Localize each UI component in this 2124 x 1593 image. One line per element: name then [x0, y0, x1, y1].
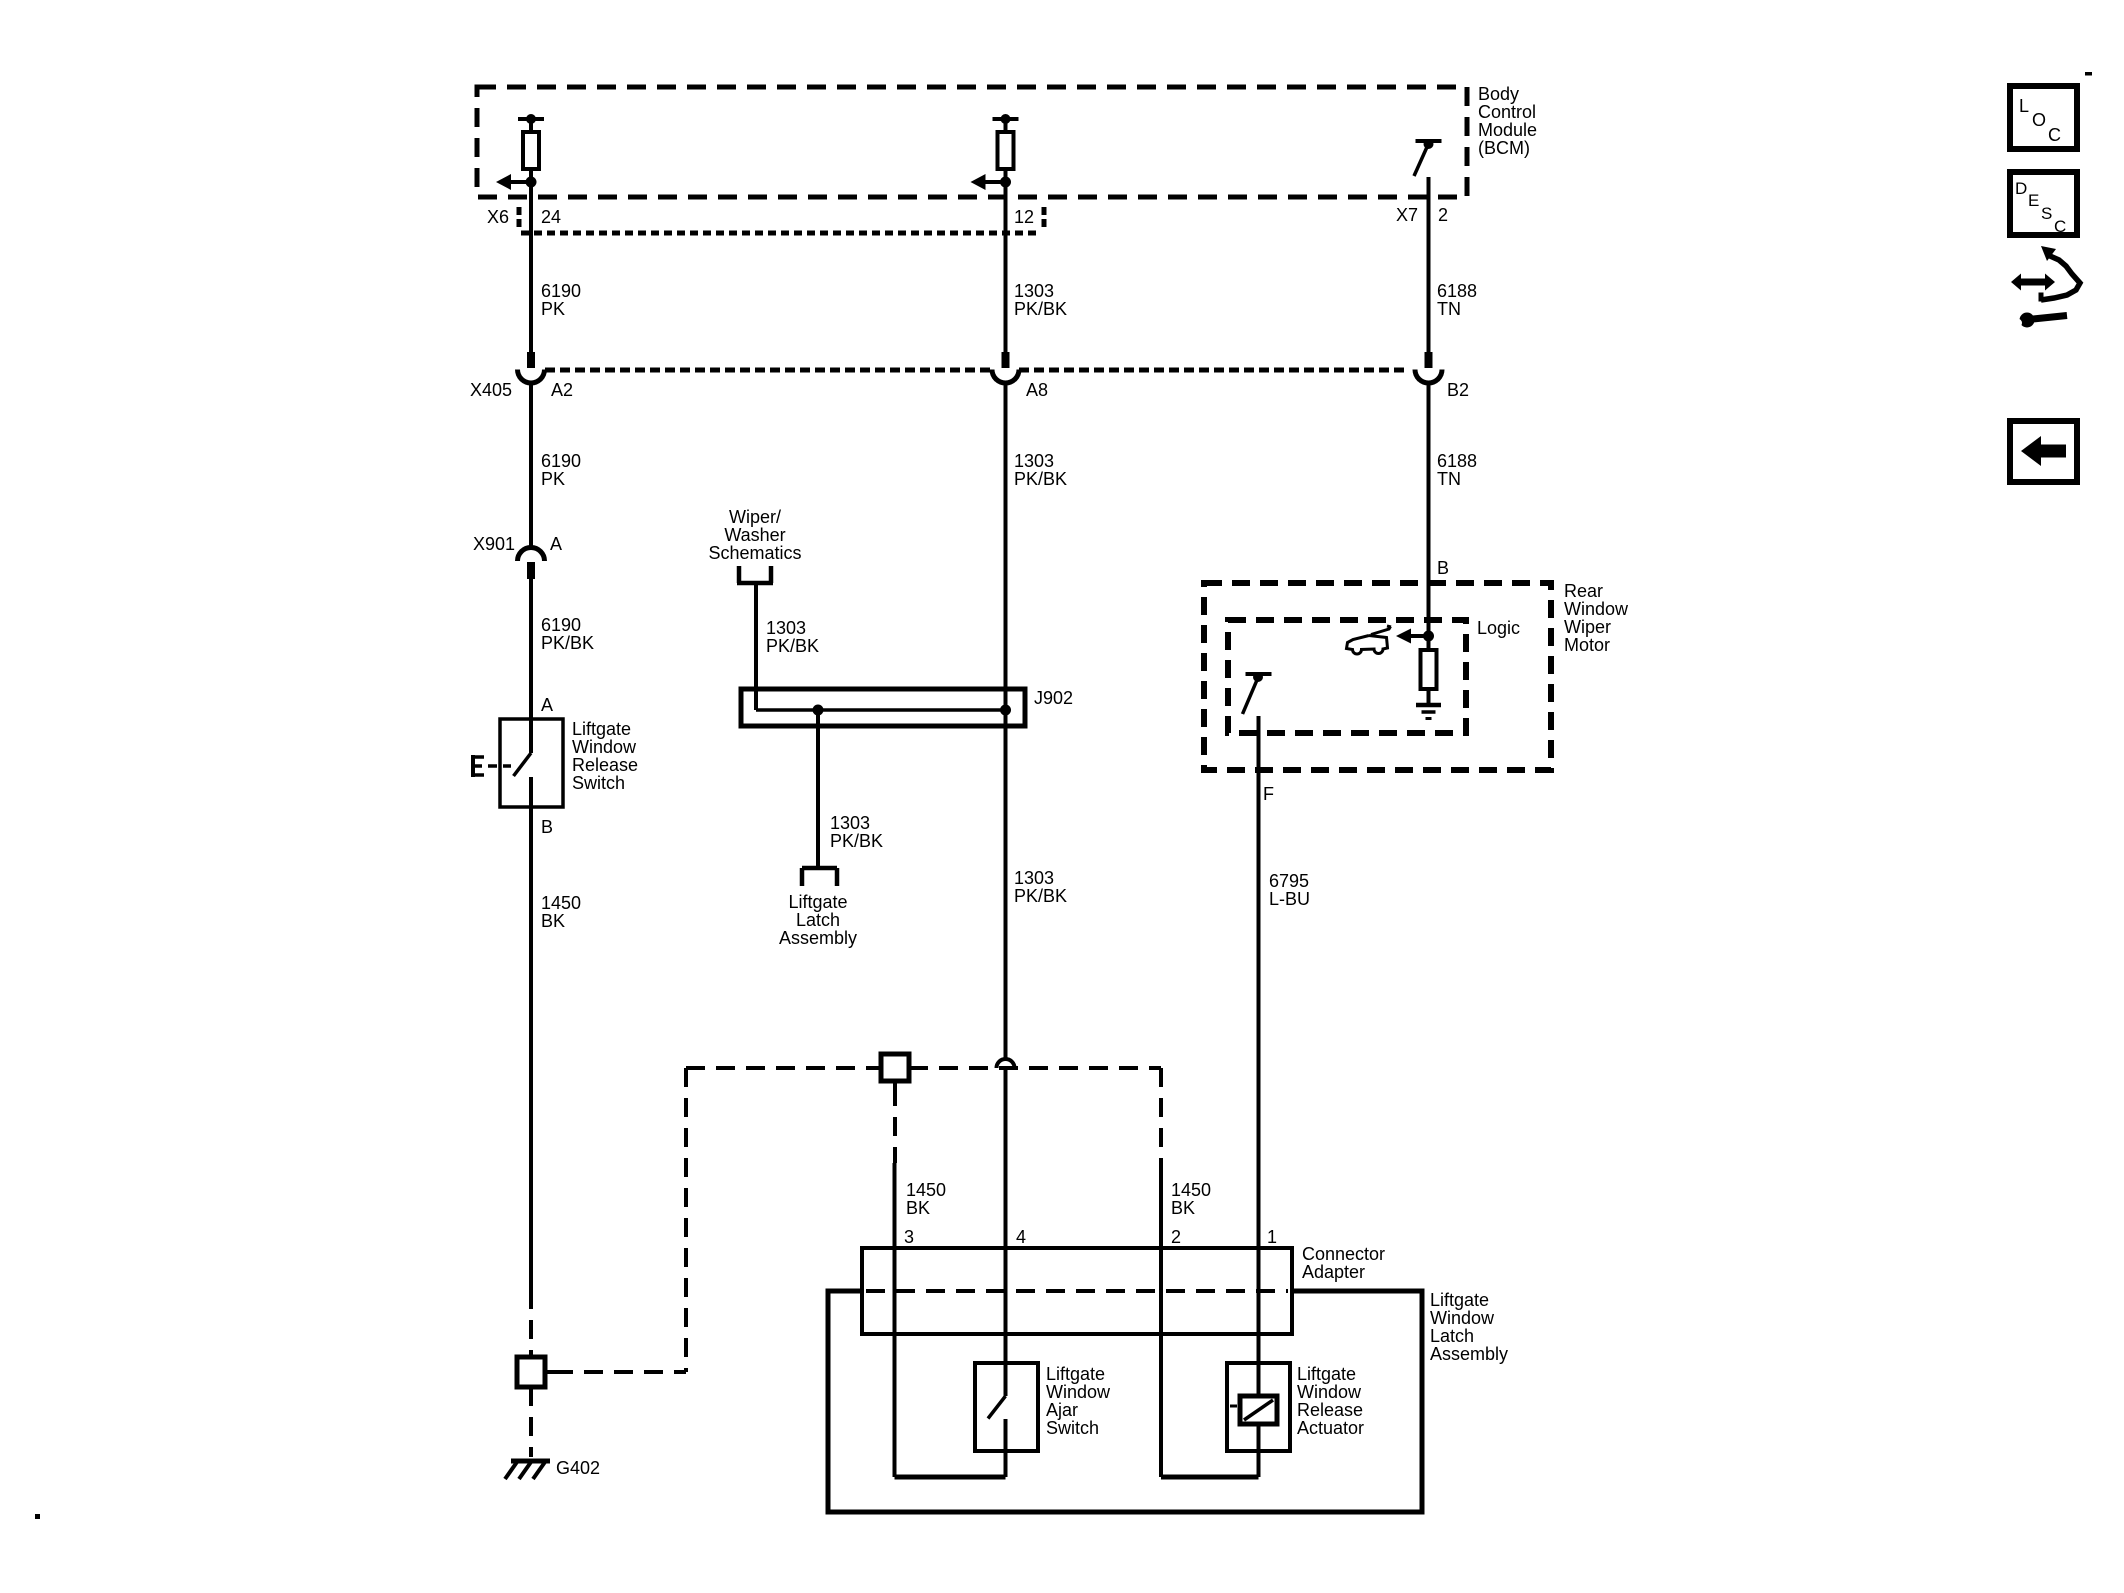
- svg-text:Washer: Washer: [724, 525, 785, 545]
- svg-text:C: C: [2054, 217, 2066, 236]
- svg-text:6190: 6190: [541, 615, 581, 635]
- svg-text:A8: A8: [1026, 380, 1048, 400]
- svg-text:PK/BK: PK/BK: [1014, 886, 1067, 906]
- svg-text:Connector: Connector: [1302, 1244, 1385, 1264]
- svg-text:PK/BK: PK/BK: [541, 633, 594, 653]
- svg-text:Rear: Rear: [1564, 581, 1603, 601]
- svg-text:O: O: [2032, 110, 2046, 130]
- svg-text:Liftgate: Liftgate: [1297, 1364, 1356, 1384]
- svg-text:BK: BK: [906, 1198, 930, 1218]
- svg-text:6190: 6190: [541, 281, 581, 301]
- svg-text:6795: 6795: [1269, 871, 1309, 891]
- svg-text:Switch: Switch: [572, 773, 625, 793]
- svg-text:X7: X7: [1396, 205, 1418, 225]
- svg-text:(BCM): (BCM): [1478, 138, 1530, 158]
- svg-text:J902: J902: [1034, 688, 1073, 708]
- svg-text:Logic: Logic: [1477, 618, 1520, 638]
- svg-text:Ajar: Ajar: [1046, 1400, 1078, 1420]
- svg-text:F: F: [1263, 784, 1274, 804]
- svg-text:3: 3: [904, 1227, 914, 1247]
- svg-text:TN: TN: [1437, 469, 1461, 489]
- svg-text:Liftgate: Liftgate: [1430, 1290, 1489, 1310]
- svg-text:PK/BK: PK/BK: [830, 831, 883, 851]
- svg-text:1303: 1303: [1014, 281, 1054, 301]
- svg-text:L: L: [2019, 96, 2029, 116]
- svg-text:Release: Release: [1297, 1400, 1363, 1420]
- svg-text:Adapter: Adapter: [1302, 1262, 1365, 1282]
- svg-text:2: 2: [1171, 1227, 1181, 1247]
- svg-text:4: 4: [1016, 1227, 1026, 1247]
- svg-text:Latch: Latch: [796, 910, 840, 930]
- svg-text:PK/BK: PK/BK: [1014, 299, 1067, 319]
- svg-text:6190: 6190: [541, 451, 581, 471]
- svg-text:Module: Module: [1478, 120, 1537, 140]
- svg-text:PK/BK: PK/BK: [1014, 469, 1067, 489]
- svg-text:6188: 6188: [1437, 281, 1477, 301]
- svg-text:PK: PK: [541, 469, 565, 489]
- svg-text:1: 1: [1267, 1227, 1277, 1247]
- svg-text:E: E: [2028, 191, 2039, 210]
- svg-text:B2: B2: [1447, 380, 1469, 400]
- svg-text:PK/BK: PK/BK: [766, 636, 819, 656]
- svg-text:Liftgate: Liftgate: [572, 719, 631, 739]
- svg-text:6188: 6188: [1437, 451, 1477, 471]
- svg-text:BK: BK: [541, 911, 565, 931]
- svg-text:2: 2: [1438, 205, 1448, 225]
- svg-text:Actuator: Actuator: [1297, 1418, 1364, 1438]
- svg-text:B: B: [541, 817, 553, 837]
- svg-text:Body: Body: [1478, 84, 1519, 104]
- svg-text:1303: 1303: [1014, 451, 1054, 471]
- svg-text:TN: TN: [1437, 299, 1461, 319]
- svg-text:BK: BK: [1171, 1198, 1195, 1218]
- svg-text:C: C: [2048, 125, 2061, 145]
- svg-text:A2: A2: [551, 380, 573, 400]
- svg-text:1450: 1450: [906, 1180, 946, 1200]
- svg-text:Window: Window: [1564, 599, 1629, 619]
- svg-text:G402: G402: [556, 1458, 600, 1478]
- svg-text:L-BU: L-BU: [1269, 889, 1310, 909]
- svg-text:1450: 1450: [1171, 1180, 1211, 1200]
- svg-text:D: D: [2015, 179, 2027, 198]
- svg-text:Wiper/: Wiper/: [729, 507, 781, 527]
- svg-text:Assembly: Assembly: [779, 928, 857, 948]
- svg-text:X901: X901: [473, 534, 515, 554]
- svg-text:Switch: Switch: [1046, 1418, 1099, 1438]
- svg-text:Window: Window: [1430, 1308, 1495, 1328]
- svg-text:1303: 1303: [766, 618, 806, 638]
- svg-text:Release: Release: [572, 755, 638, 775]
- svg-text:24: 24: [541, 207, 561, 227]
- svg-text:X6: X6: [487, 207, 509, 227]
- svg-text:B: B: [1437, 558, 1449, 578]
- svg-text:Liftgate: Liftgate: [788, 892, 847, 912]
- svg-text:PK: PK: [541, 299, 565, 319]
- svg-text:Motor: Motor: [1564, 635, 1610, 655]
- svg-text:1303: 1303: [1014, 868, 1054, 888]
- svg-text:Control: Control: [1478, 102, 1536, 122]
- svg-text:12: 12: [1014, 207, 1034, 227]
- svg-text:Window: Window: [572, 737, 637, 757]
- svg-text:Window: Window: [1046, 1382, 1111, 1402]
- svg-text:S: S: [2041, 204, 2052, 223]
- svg-text:X405: X405: [470, 380, 512, 400]
- svg-text:Liftgate: Liftgate: [1046, 1364, 1105, 1384]
- svg-text:Wiper: Wiper: [1564, 617, 1611, 637]
- svg-text:A: A: [550, 534, 562, 554]
- svg-text:1303: 1303: [830, 813, 870, 833]
- svg-text:Latch: Latch: [1430, 1326, 1474, 1346]
- svg-text:Schematics: Schematics: [708, 543, 801, 563]
- svg-text:Assembly: Assembly: [1430, 1344, 1508, 1364]
- svg-text:Window: Window: [1297, 1382, 1362, 1402]
- svg-text:A: A: [541, 695, 553, 715]
- svg-text:1450: 1450: [541, 893, 581, 913]
